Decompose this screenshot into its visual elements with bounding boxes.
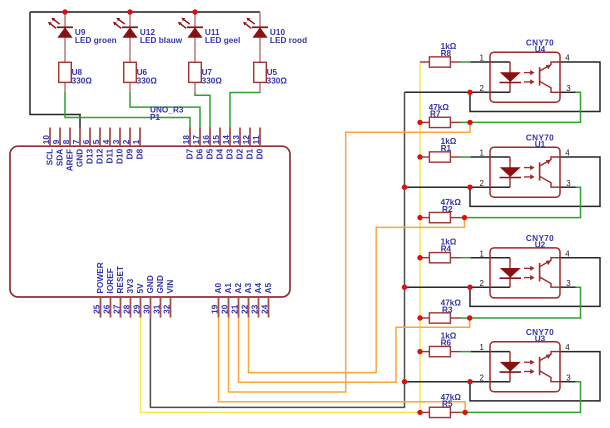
svg-text:5V: 5V xyxy=(136,283,145,294)
svg-text:3: 3 xyxy=(566,373,571,382)
svg-text:R4: R4 xyxy=(441,245,452,254)
svg-text:R8: R8 xyxy=(441,49,452,58)
svg-text:1: 1 xyxy=(480,149,484,158)
svg-text:3: 3 xyxy=(566,279,571,288)
svg-text:1: 1 xyxy=(480,343,484,352)
svg-text:1: 1 xyxy=(132,139,141,144)
svg-text:17: 17 xyxy=(192,135,201,145)
svg-text:D7: D7 xyxy=(186,148,195,159)
svg-text:R7: R7 xyxy=(430,110,441,119)
svg-text:2: 2 xyxy=(480,179,484,188)
svg-text:22: 22 xyxy=(241,304,250,314)
svg-text:A3: A3 xyxy=(244,283,253,294)
svg-text:4: 4 xyxy=(565,249,570,258)
svg-text:D5: D5 xyxy=(206,148,215,159)
svg-text:8: 8 xyxy=(62,139,71,144)
svg-text:20: 20 xyxy=(221,304,230,314)
svg-text:26: 26 xyxy=(103,304,112,314)
svg-text:2: 2 xyxy=(122,139,131,144)
svg-text:A4: A4 xyxy=(254,283,263,294)
svg-text:4: 4 xyxy=(565,149,570,158)
svg-text:VIN: VIN xyxy=(166,280,175,294)
svg-text:12: 12 xyxy=(242,135,251,145)
svg-text:D13: D13 xyxy=(86,148,95,164)
svg-text:GND: GND xyxy=(76,149,85,167)
svg-text:6: 6 xyxy=(82,139,91,144)
svg-text:D6: D6 xyxy=(196,148,205,159)
svg-text:2: 2 xyxy=(480,373,484,382)
svg-text:SDA: SDA xyxy=(56,149,65,166)
svg-text:U1: U1 xyxy=(535,140,546,149)
svg-text:3: 3 xyxy=(566,179,571,188)
svg-text:A2: A2 xyxy=(234,283,243,294)
svg-text:3V3: 3V3 xyxy=(126,278,135,293)
svg-text:IOREF: IOREF xyxy=(106,268,115,293)
svg-text:D4: D4 xyxy=(216,148,225,159)
svg-text:13: 13 xyxy=(232,135,241,145)
svg-text:D2: D2 xyxy=(236,148,245,159)
svg-text:2: 2 xyxy=(480,279,484,288)
svg-text:330Ω: 330Ω xyxy=(72,77,93,86)
svg-text:D10: D10 xyxy=(116,148,125,164)
svg-text:9: 9 xyxy=(52,139,61,144)
svg-text:25: 25 xyxy=(93,304,102,314)
svg-text:32: 32 xyxy=(163,304,172,314)
svg-text:7: 7 xyxy=(72,139,81,144)
svg-text:31: 31 xyxy=(153,304,162,314)
svg-text:RESET: RESET xyxy=(116,266,125,294)
svg-text:POWER: POWER xyxy=(96,262,105,293)
svg-text:A0: A0 xyxy=(214,283,223,294)
svg-text:D9: D9 xyxy=(126,148,135,159)
svg-text:LED blauw: LED blauw xyxy=(140,36,183,45)
svg-text:R6: R6 xyxy=(441,339,452,348)
svg-text:16: 16 xyxy=(202,135,211,145)
svg-text:30: 30 xyxy=(143,304,152,314)
svg-text:28: 28 xyxy=(123,304,132,314)
svg-text:R5: R5 xyxy=(442,400,453,409)
svg-text:LED geel: LED geel xyxy=(205,36,240,45)
svg-text:3: 3 xyxy=(112,139,121,144)
svg-text:19: 19 xyxy=(211,304,220,314)
svg-text:R3: R3 xyxy=(442,305,453,314)
svg-text:29: 29 xyxy=(133,304,142,314)
svg-text:4: 4 xyxy=(565,343,570,352)
svg-text:D1: D1 xyxy=(246,148,255,159)
svg-text:A1: A1 xyxy=(224,283,233,294)
svg-text:R1: R1 xyxy=(441,144,452,153)
svg-text:15: 15 xyxy=(212,135,221,145)
svg-text:R2: R2 xyxy=(442,205,453,214)
svg-text:18: 18 xyxy=(182,135,191,145)
svg-text:U4: U4 xyxy=(535,45,546,54)
svg-text:D11: D11 xyxy=(106,148,115,163)
svg-text:D8: D8 xyxy=(136,148,145,159)
svg-text:2: 2 xyxy=(480,84,484,93)
svg-text:A5: A5 xyxy=(264,283,273,294)
svg-text:21: 21 xyxy=(231,304,240,314)
svg-text:GND: GND xyxy=(146,275,155,293)
svg-text:3: 3 xyxy=(566,84,571,93)
svg-text:23: 23 xyxy=(251,304,260,314)
svg-text:D12: D12 xyxy=(96,148,105,164)
svg-text:4: 4 xyxy=(565,54,570,63)
svg-text:10: 10 xyxy=(42,135,51,145)
svg-text:27: 27 xyxy=(113,304,122,314)
svg-text:1: 1 xyxy=(480,249,484,258)
svg-text:330Ω: 330Ω xyxy=(137,77,158,86)
svg-text:U2: U2 xyxy=(535,241,546,250)
svg-text:GND: GND xyxy=(156,275,165,293)
svg-text:11: 11 xyxy=(252,135,261,144)
svg-text:LED rood: LED rood xyxy=(270,36,307,45)
svg-text:P1: P1 xyxy=(150,113,161,122)
svg-text:4: 4 xyxy=(102,139,111,144)
svg-text:330Ω: 330Ω xyxy=(202,77,223,86)
svg-text:SCL: SCL xyxy=(46,149,55,166)
svg-text:1: 1 xyxy=(480,54,484,63)
svg-text:24: 24 xyxy=(261,304,270,314)
svg-text:14: 14 xyxy=(222,135,231,145)
svg-text:LED groen: LED groen xyxy=(75,36,117,45)
svg-text:AREF: AREF xyxy=(66,149,75,172)
svg-text:330Ω: 330Ω xyxy=(267,77,288,86)
svg-text:U3: U3 xyxy=(535,335,546,344)
svg-text:D3: D3 xyxy=(226,148,235,159)
svg-text:D0: D0 xyxy=(256,148,265,159)
svg-text:5: 5 xyxy=(92,139,101,144)
